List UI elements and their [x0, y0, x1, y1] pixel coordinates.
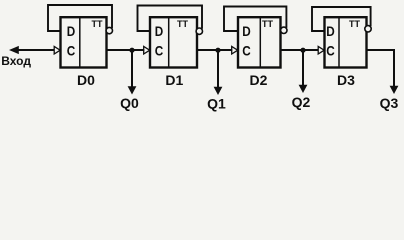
- wire D0.Q to D1.C: [107, 49, 145, 51]
- svg-text:D: D: [67, 23, 76, 39]
- flip-flop D1 inversion bubble (Q-bar output): [196, 28, 202, 34]
- flip-flop D1 divider: [168, 17, 170, 67]
- svg-text:D: D: [326, 23, 335, 39]
- svg-text:D: D: [242, 23, 251, 39]
- flip-flop D2 box U3: [238, 17, 281, 67]
- junction node Q1: [215, 48, 220, 53]
- flip-flop D1 feedback loop wire (Q-bar to D): [138, 6, 203, 32]
- arrowhead Q1: [214, 87, 223, 95]
- svg-text:C: C: [326, 43, 335, 59]
- wire D3.Q to Q3 tap: [367, 50, 395, 87]
- svg-text:TT: TT: [349, 19, 360, 29]
- wire down to Q2: [302, 50, 304, 86]
- svg-text:D: D: [155, 23, 164, 39]
- svg-text:Q3: Q3: [380, 95, 399, 111]
- flip-flop D2 divider: [259, 17, 261, 67]
- svg-text:Q1: Q1: [207, 96, 226, 112]
- wire down to Q1: [217, 50, 219, 88]
- junction node Q2: [300, 48, 305, 53]
- flip-flop D1 box U2: [150, 17, 197, 67]
- arrowhead Q3: [390, 86, 399, 94]
- flip-flop D3 feedback loop wire (Q-bar to D): [312, 7, 371, 31]
- arrowhead Q0: [128, 86, 137, 94]
- flip-flop D3 divider: [338, 17, 340, 67]
- svg-text:D3: D3: [337, 72, 355, 88]
- svg-text:C: C: [242, 43, 251, 59]
- input wire with left arrowhead: [18, 49, 55, 51]
- flip-flop D0 dynamic clock input triangle: [54, 46, 60, 54]
- flip-flop D1 dynamic clock input triangle: [144, 46, 150, 54]
- flip-flop D3 box U4: [325, 17, 367, 67]
- flip-flop D0 box U1: [61, 17, 107, 67]
- flip-flop D2 feedback loop wire (Q-bar to D): [224, 7, 286, 32]
- flip-flop D0 divider: [79, 17, 81, 67]
- flip-flop D0 inversion bubble (Q-bar output): [106, 27, 112, 33]
- svg-text:Вход: Вход: [1, 54, 31, 68]
- flip-flop D3 inversion bubble (Q-bar output): [365, 26, 371, 32]
- flip-flop D2 dynamic clock input triangle: [232, 46, 238, 54]
- svg-text:TT: TT: [92, 19, 103, 29]
- wire D1.Q to D2.C: [197, 49, 233, 51]
- input arrowhead: [9, 46, 19, 54]
- svg-text:D0: D0: [77, 72, 95, 88]
- flip-flop D3 dynamic clock input triangle: [318, 46, 324, 54]
- svg-text:D2: D2: [250, 72, 268, 88]
- svg-text:C: C: [67, 43, 76, 59]
- arrowhead Q2: [299, 85, 308, 93]
- flip-flop D0 feedback loop wire (Q-bar to D): [48, 5, 112, 31]
- svg-text:TT: TT: [177, 19, 188, 29]
- svg-text:Q0: Q0: [120, 95, 139, 111]
- flip-flop D2 inversion bubble (Q-bar output): [281, 27, 287, 33]
- wire down to Q0: [131, 50, 133, 87]
- junction node Q0: [129, 48, 134, 53]
- svg-text:TT: TT: [262, 19, 273, 29]
- svg-text:C: C: [155, 43, 164, 59]
- svg-text:Q2: Q2: [292, 94, 311, 110]
- svg-text:D1: D1: [165, 72, 183, 88]
- wire D2.Q to D3.C: [281, 49, 319, 51]
